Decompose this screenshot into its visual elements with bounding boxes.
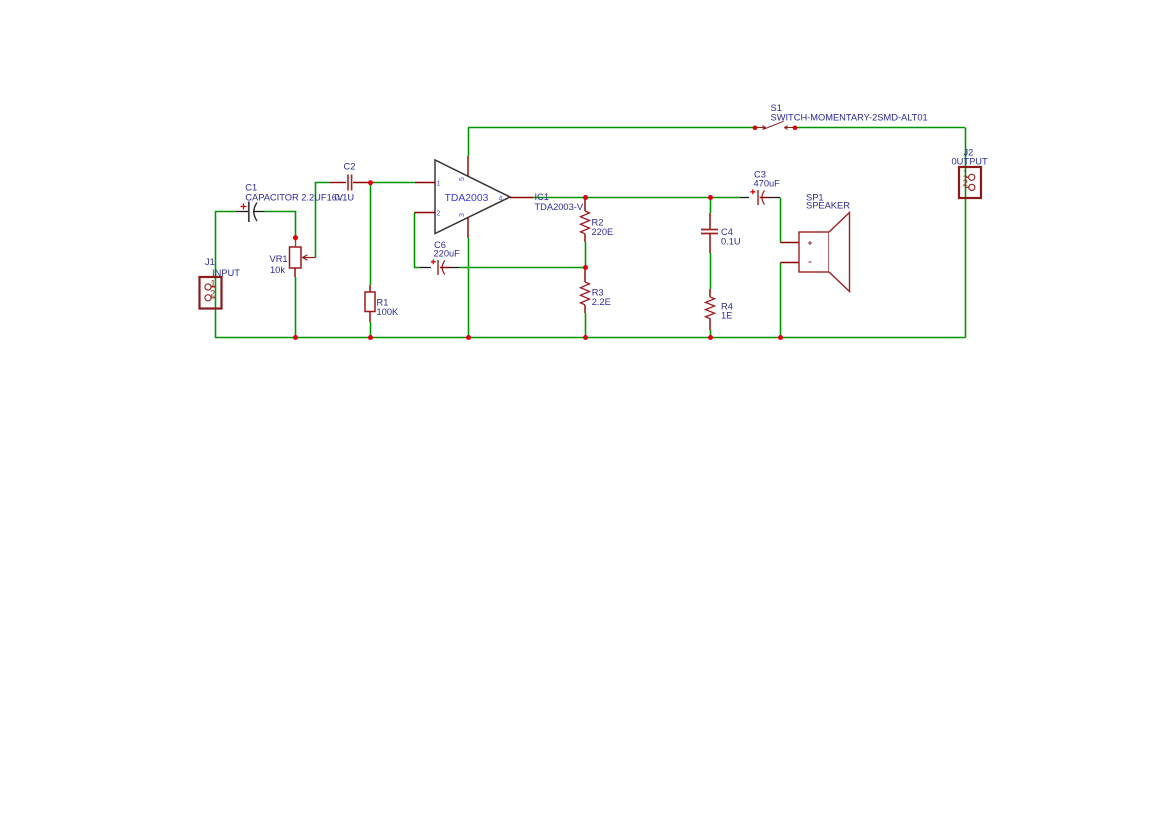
junction node output C4 [708,195,713,200]
capacitor C1 plus sign [241,204,247,210]
junction node ground pin3 [466,335,471,340]
wire VR1 bottom to ground [295,277,297,338]
svg-text:SWITCH-MOMENTARY-2SMD-ALT01: SWITCH-MOMENTARY-2SMD-ALT01 [771,113,928,123]
wire R3 bottom [585,313,587,338]
svg-text:INPUT: INPUT [212,268,240,278]
junction node VR1 top [293,235,298,240]
connector J2 pin 2 circle [969,184,975,190]
wire R1 riser [370,183,372,286]
wire R4 bottom [710,330,712,338]
capacitor C3 plate [757,190,759,205]
resistor R4 zigzag [706,297,715,319]
svg-text:S1: S1 [771,103,782,113]
capacitor C4 bottom stub [709,234,711,253]
junction node ground R3 [583,335,588,340]
wire top rail right segment [795,127,965,129]
switch S1 right terminal dot [793,126,798,131]
capacitor C2 left lead [330,182,346,184]
connector J2 pin 1 circle [969,174,975,180]
capacitor C3 curved plate [762,191,765,205]
resistor R1 top stub [369,285,371,292]
resistor R2 zigzag [581,211,590,234]
resistor R3 top stub [584,268,586,282]
capacitor C1 curved plate [254,203,257,222]
svg-text:VR1: VR1 [270,254,288,264]
svg-text:470uF: 470uF [754,178,781,188]
junction node ground VR1 [293,335,298,340]
svg-text:4: 4 [499,196,503,203]
wire speaker minus to ground [780,263,782,338]
svg-text:0UTPUT: 0UTPUT [952,157,988,167]
op-amp pin 2 stub [415,212,436,214]
capacitor C4 plates [701,230,718,234]
wire R2 bottom [585,242,587,268]
wire right rail [965,128,967,338]
wire pin3 to ground [468,238,470,338]
speaker SP1 minus mark [809,261,812,263]
capacitor C6 black lead right [450,267,460,269]
capacitor C2 right lead [353,182,370,184]
resistor R4 bottom stub [709,319,711,331]
capacitor C2 plates [348,175,352,191]
capacitor C4 top stub [709,213,711,229]
svg-text:10k: 10k [270,265,285,275]
speaker SP1 minus pin [781,262,800,264]
capacitor C6 black lead left [420,267,431,269]
resistor R3 bottom stub [584,305,586,313]
capacitor C3 black lead right [770,197,780,199]
junction node ground R1 [368,335,373,340]
svg-text:0.1U: 0.1U [335,192,355,202]
connector J1 pin 1 circle [205,284,211,290]
svg-text:TDA2003-V: TDA2003-V [535,202,584,212]
switch S1 lever [764,121,784,129]
potentiometer VR1 body [290,247,302,268]
junction node feedback [583,265,588,270]
svg-text:0.1U: 0.1U [721,237,741,247]
wire left rail [215,212,217,338]
wire C6 right to R3 node [460,267,586,269]
op-amp U1 TDA2003 triangle [435,160,510,234]
svg-text:SPEAKER: SPEAKER [806,201,850,211]
connector J1 box [200,277,222,309]
speaker SP1 plus mark [808,241,812,245]
wire output [533,197,740,199]
connector J1 pin stubs [211,287,215,298]
svg-text:CAPACITOR 2.2UF16V: CAPACITOR 2.2UF16V [245,192,344,202]
svg-text:TDA2003: TDA2003 [445,193,489,204]
svg-text:2.2E: 2.2E [592,297,611,307]
junction node ground R4 [708,335,713,340]
capacitor C1 black lead right [253,211,265,213]
svg-text:1: 1 [963,168,968,178]
svg-text:R1: R1 [377,297,389,307]
svg-text:1: 1 [437,181,441,188]
svg-text:IC1: IC1 [535,192,549,202]
potentiometer VR1 top stub [295,239,297,247]
capacitor C3 red lead [760,197,770,199]
op-amp pin 1 stub [415,182,435,184]
svg-text:C4: C4 [721,227,733,237]
wire bottom rail [215,337,966,339]
svg-text:100K: 100K [377,307,400,317]
capacitor C6 plus sign [431,259,436,264]
speaker SP1 horn [829,213,850,292]
potentiometer VR1 wiper arrow [302,255,316,261]
capacitor C3 black lead left [740,197,749,199]
svg-text:R2: R2 [592,217,604,227]
wire C1 right to VR1 [265,212,296,238]
wire C3 to speaker plus [780,198,782,243]
svg-text:220E: 220E [592,227,614,237]
switch S1 right stub and arrow [784,126,793,130]
junction node ground speaker [778,335,783,340]
wire C6 left vertical [415,213,421,268]
op-amp pin 3 stub [467,218,469,239]
wire top rail left segment [468,127,755,129]
wire VR1 wiper riser [316,183,331,258]
svg-text:220uF: 220uF [434,249,461,259]
wire C1 left [215,211,236,213]
potentiometer VR1 bottom stub [294,268,296,277]
capacitor C1 black lead left [236,211,248,213]
resistor R2 top stub [584,198,586,211]
capacitor C1 straight plate [248,202,250,223]
connector J1 pin 2 circle [205,295,211,301]
resistor R3 zigzag [581,282,590,305]
resistor R1 bottom stub [369,312,371,323]
connector J2 box [959,167,981,198]
speaker SP1 body [799,232,829,272]
svg-text:3: 3 [459,213,466,217]
svg-text:C1: C1 [245,182,257,192]
svg-text:2: 2 [963,178,968,188]
svg-text:C2: C2 [344,162,356,172]
svg-text:2: 2 [210,289,215,299]
capacitor C6 plate [437,260,439,275]
switch S1 left stub and arrow [757,126,766,130]
svg-text:2: 2 [437,211,441,218]
op-amp pin 4 stub [510,197,533,199]
wire C4 to R4 [710,253,712,289]
switch S1 left terminal dot [753,126,758,131]
svg-text:1: 1 [210,279,215,289]
op-amp pin 5 stub [467,156,469,177]
svg-text:1E: 1E [721,311,732,321]
speaker SP1 plus pin [781,242,800,244]
junction node C2-R1 [368,180,373,185]
wire pin5 riser [468,128,470,157]
connector J2 pin stubs [965,177,969,187]
wire R1 bottom [370,322,372,338]
svg-text:J1: J1 [205,257,215,267]
junction node output R2 [583,195,588,200]
svg-text:5: 5 [459,177,466,181]
wire C4 riser [710,198,712,214]
wire C2 right [371,182,416,184]
svg-text:R3: R3 [592,287,604,297]
resistor R1 body [365,292,375,312]
capacitor C6 curved plate [442,261,445,275]
capacitor C6 red lead [440,267,450,269]
resistor R4 top stub [709,289,711,297]
resistor R2 bottom stub [584,234,586,242]
capacitor C3 plus sign [750,189,755,194]
